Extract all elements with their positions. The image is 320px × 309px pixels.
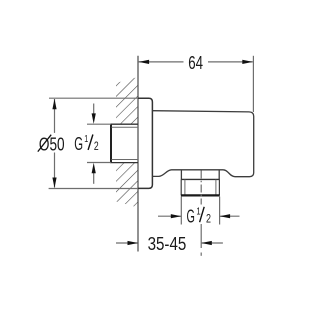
svg-text:35-45: 35-45 xyxy=(148,233,187,254)
svg-text:1: 1 xyxy=(84,133,88,145)
svg-text:1: 1 xyxy=(196,205,200,217)
svg-text:G: G xyxy=(187,206,195,227)
svg-text:2: 2 xyxy=(94,139,99,153)
svg-text:2: 2 xyxy=(206,212,211,226)
svg-text:64: 64 xyxy=(188,53,203,73)
svg-text:G: G xyxy=(74,134,83,154)
